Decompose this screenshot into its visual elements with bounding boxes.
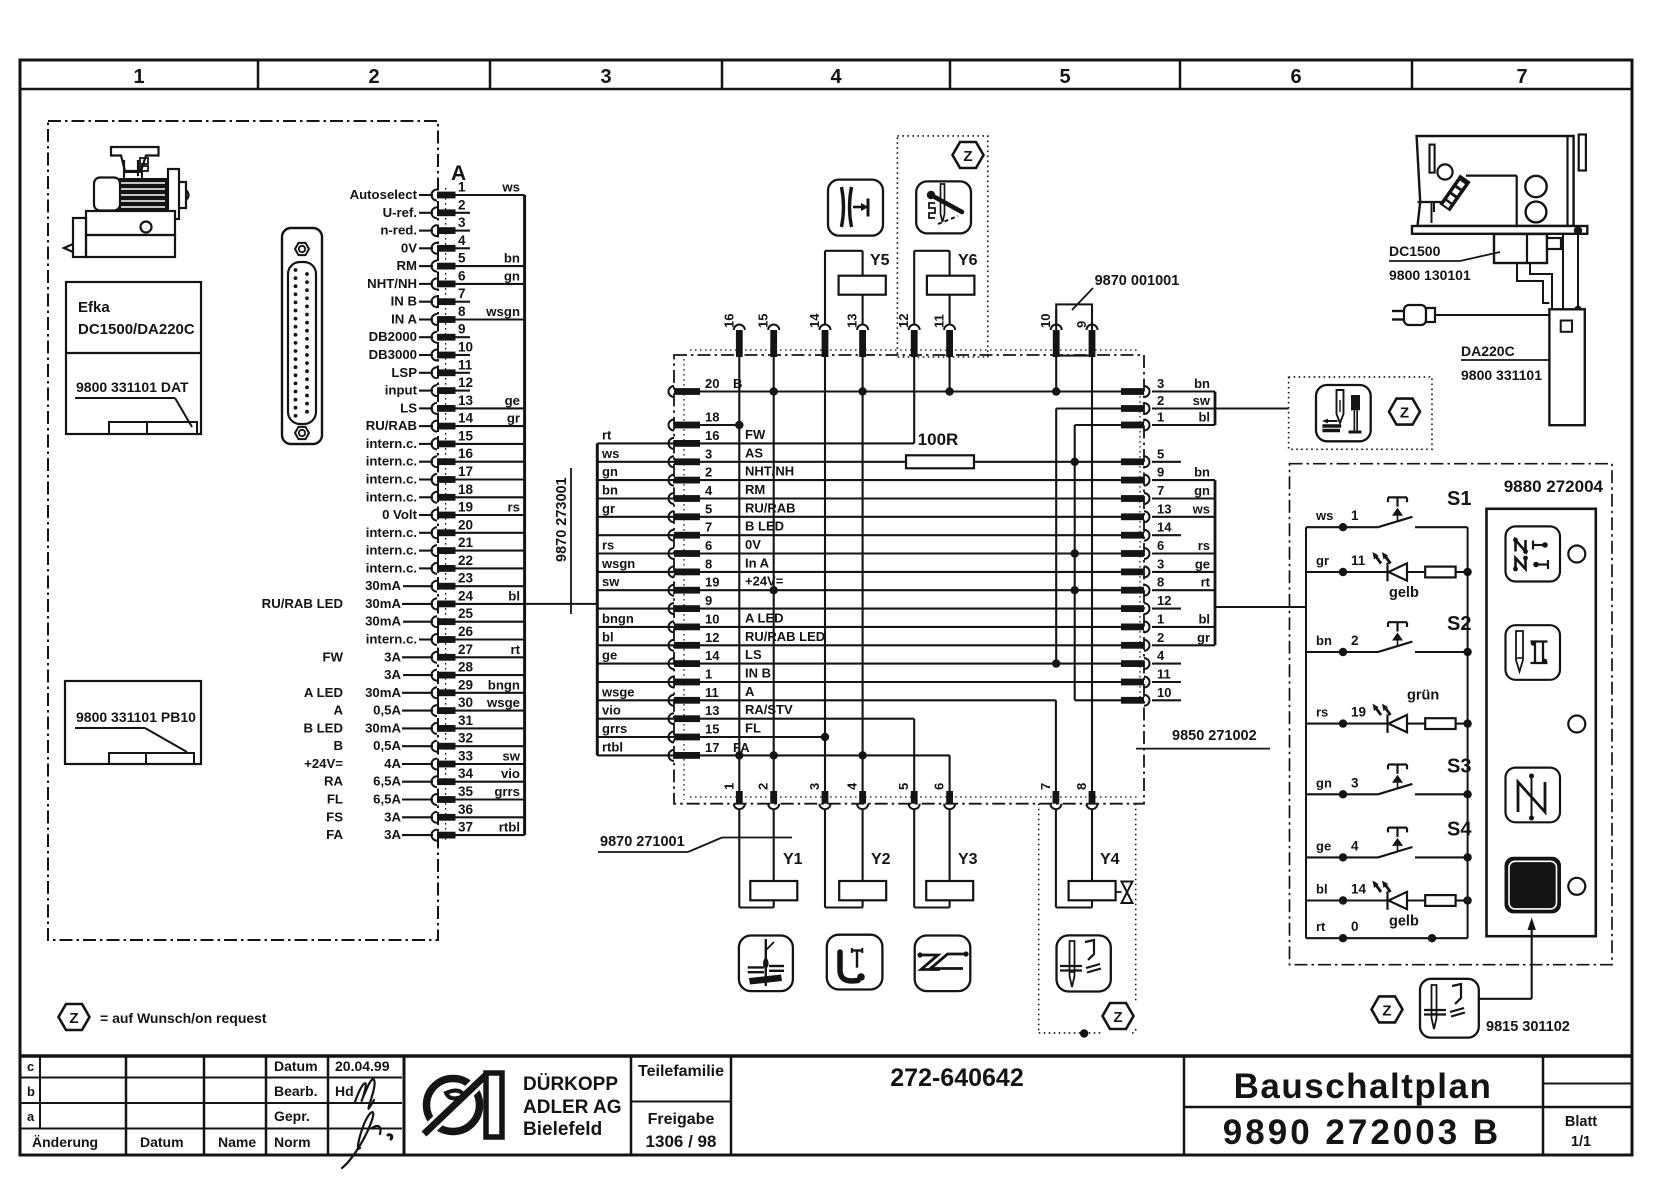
panel round hole 3 bbox=[1568, 878, 1585, 895]
svg-text:LS: LS bbox=[400, 400, 417, 415]
svg-text:gelb: gelb bbox=[1389, 585, 1419, 601]
rail rung row 8 bbox=[597, 571, 674, 573]
svg-text:Y2: Y2 bbox=[871, 851, 891, 868]
svg-text:17: 17 bbox=[458, 464, 473, 479]
block left pin 8 bbox=[669, 566, 675, 577]
svg-text:33: 33 bbox=[458, 749, 474, 764]
svg-text:S3: S3 bbox=[1447, 755, 1471, 777]
svg-text:grün: grün bbox=[1407, 688, 1439, 704]
block left pin 5 bbox=[669, 511, 675, 522]
svg-text:2: 2 bbox=[756, 783, 771, 790]
svg-text:20.04.99: 20.04.99 bbox=[335, 1058, 390, 1074]
column ruler strip bbox=[20, 88, 1632, 91]
connector A pin 20 (intern.c.) bbox=[432, 527, 438, 538]
svg-text:100R: 100R bbox=[918, 430, 959, 449]
svg-text:4: 4 bbox=[1157, 648, 1165, 663]
svg-text:2: 2 bbox=[1157, 393, 1164, 408]
block right pin 14 bbox=[1121, 532, 1144, 539]
block bottom pin 8 bbox=[1089, 791, 1096, 804]
svg-text:18: 18 bbox=[458, 482, 474, 497]
svg-text:wsge: wsge bbox=[486, 695, 520, 710]
svg-text:wsgn: wsgn bbox=[485, 304, 520, 319]
Y3 icon stitch condensing bbox=[915, 936, 971, 992]
svg-text:DC1500/DA220C: DC1500/DA220C bbox=[78, 321, 195, 338]
block left pin 6 bbox=[669, 548, 675, 559]
svg-text:3: 3 bbox=[705, 446, 712, 461]
wire row 16 FW bbox=[700, 442, 914, 444]
svg-text:Hd: Hd bbox=[335, 1083, 354, 1099]
svg-text:Autoselect: Autoselect bbox=[350, 187, 418, 202]
svg-text:gr: gr bbox=[602, 501, 615, 516]
svg-text:6: 6 bbox=[458, 268, 466, 283]
svg-text:Teilefamilie: Teilefamilie bbox=[638, 1063, 724, 1080]
svg-text:rs: rs bbox=[1198, 538, 1210, 553]
block left pin 19 bbox=[669, 585, 675, 596]
connector A pin 1 (Autoselect) bbox=[432, 190, 438, 201]
block left pin 17 bbox=[669, 750, 675, 761]
svg-text:31: 31 bbox=[458, 713, 474, 728]
winder icon needle and tool bbox=[1337, 390, 1344, 423]
svg-text:RM: RM bbox=[396, 258, 417, 273]
connector A pin 14 (RU/RAB) bbox=[432, 421, 438, 432]
svg-text:10: 10 bbox=[705, 611, 719, 626]
block top pin 12 bbox=[911, 330, 918, 357]
connector A dotted pin line bbox=[445, 188, 447, 842]
right label box group 1 bbox=[1214, 392, 1217, 426]
Y4 icon needle thread trim bbox=[1057, 935, 1111, 991]
vertical lane top pin 11 to row 20B bbox=[949, 357, 951, 392]
svg-text:6,5A: 6,5A bbox=[373, 774, 401, 789]
svg-text:rtbl: rtbl bbox=[499, 820, 520, 835]
machine slanted control pad bbox=[1439, 175, 1470, 212]
svg-text:9: 9 bbox=[1157, 465, 1164, 480]
svg-text:9870 001001: 9870 001001 bbox=[1095, 273, 1180, 289]
svg-text:13: 13 bbox=[1157, 501, 1171, 516]
optional dashed box with winder icon bbox=[1289, 377, 1432, 449]
svg-text:9870 271001: 9870 271001 bbox=[600, 834, 685, 850]
wires motor to control box bbox=[1517, 263, 1549, 303]
svg-text:9: 9 bbox=[458, 322, 466, 337]
block bottom pin 1 bbox=[736, 791, 743, 804]
svg-text:RU/RAB LED: RU/RAB LED bbox=[745, 629, 825, 644]
connector 9870 001001 box bbox=[1055, 310, 1057, 325]
svg-text:bn: bn bbox=[504, 251, 520, 266]
svg-text:30mA: 30mA bbox=[365, 685, 401, 700]
svg-text:6: 6 bbox=[1290, 66, 1301, 88]
svg-text:intern.c.: intern.c. bbox=[366, 632, 417, 647]
svg-text:a: a bbox=[27, 1109, 35, 1124]
Y1 icon needle with fabric bbox=[739, 936, 793, 992]
svg-text:29: 29 bbox=[458, 677, 473, 692]
svg-text:1: 1 bbox=[1157, 611, 1164, 626]
svg-text:rtbl: rtbl bbox=[602, 739, 623, 754]
svg-text:10: 10 bbox=[458, 340, 473, 355]
svg-text:30mA: 30mA bbox=[365, 614, 401, 629]
motor positioning bracket bbox=[111, 147, 159, 171]
svg-text:14: 14 bbox=[705, 648, 720, 663]
svg-text:24: 24 bbox=[458, 588, 474, 603]
svg-text:= auf Wunsch/on request: = auf Wunsch/on request bbox=[100, 1010, 267, 1026]
optional dashed box around Y6 bbox=[897, 136, 987, 357]
svg-text:NHT/NH: NHT/NH bbox=[745, 464, 794, 479]
svg-text:sw: sw bbox=[502, 749, 520, 764]
svg-text:12: 12 bbox=[896, 314, 911, 328]
rail rung row 9 bbox=[597, 608, 674, 610]
machine needle bar bbox=[1431, 202, 1433, 223]
svg-text:ge: ge bbox=[602, 648, 617, 663]
svg-text:IN A: IN A bbox=[391, 312, 417, 327]
svg-text:bl: bl bbox=[1198, 410, 1210, 425]
panel left rail bbox=[1305, 527, 1307, 938]
svg-text:12: 12 bbox=[705, 630, 719, 645]
svg-text:15: 15 bbox=[756, 314, 771, 328]
svg-text:28: 28 bbox=[458, 660, 474, 675]
Y4 air valve symbol bbox=[1122, 882, 1133, 904]
svg-text:7: 7 bbox=[1038, 783, 1053, 790]
svg-text:RU/RAB LED: RU/RAB LED bbox=[262, 596, 343, 611]
block left wire rail bbox=[596, 443, 599, 755]
machine handwheel circles bbox=[1525, 176, 1546, 197]
svg-text:rt: rt bbox=[1201, 575, 1211, 590]
central block dash-dot outline (9870 271001 connector field) bbox=[674, 355, 1144, 804]
wire row 1 bbox=[700, 681, 1144, 683]
svg-text:6: 6 bbox=[1157, 538, 1164, 553]
svg-text:Norm: Norm bbox=[274, 1134, 311, 1150]
svg-text:2: 2 bbox=[1157, 630, 1164, 645]
right label box group 2 bbox=[1214, 480, 1217, 645]
svg-text:16: 16 bbox=[705, 428, 719, 443]
panel icon button needle position N bbox=[1506, 768, 1561, 823]
svg-text:26: 26 bbox=[458, 624, 474, 639]
block left pin 15 bbox=[669, 732, 675, 743]
svg-text:bn: bn bbox=[602, 483, 618, 498]
svg-text:12: 12 bbox=[1157, 593, 1171, 608]
block right pin 6 (rs) bbox=[1121, 550, 1144, 557]
rail rung row 6 bbox=[597, 552, 674, 554]
svg-text:ADLER AG: ADLER AG bbox=[523, 1097, 622, 1118]
wire row 3 AS with resistor 100R bbox=[700, 461, 906, 463]
wire right pin 10 corner bbox=[1075, 699, 1144, 701]
wire row 4 bbox=[700, 497, 1144, 499]
connector A pin 16 (intern.c.) bbox=[432, 456, 438, 467]
svg-text:0 Volt: 0 Volt bbox=[382, 507, 418, 522]
connector A pin 33 (+24V=) bbox=[432, 759, 438, 770]
connector A pin 22 (intern.c.) bbox=[432, 563, 438, 574]
svg-text:gn: gn bbox=[1194, 483, 1210, 498]
motor left end cap bbox=[94, 178, 120, 211]
connector A pin 26 (intern.c.) bbox=[432, 634, 438, 645]
svg-text:gn: gn bbox=[602, 464, 618, 479]
svg-text:bn: bn bbox=[1194, 376, 1210, 391]
motor base box bbox=[86, 211, 175, 235]
Z hexagon on Y6 box bbox=[953, 142, 984, 168]
connector A pin 30 (A) bbox=[432, 705, 438, 716]
svg-text:272-640642: 272-640642 bbox=[890, 1064, 1023, 1092]
svg-text:18: 18 bbox=[705, 410, 719, 425]
block top pin 10 bbox=[1053, 330, 1060, 357]
svg-text:rs: rs bbox=[508, 500, 520, 515]
svg-text:rt: rt bbox=[1316, 919, 1326, 934]
svg-text:16: 16 bbox=[458, 446, 474, 461]
svg-text:S1: S1 bbox=[1447, 488, 1471, 510]
svg-text:DB2000: DB2000 bbox=[369, 329, 417, 344]
svg-text:bn: bn bbox=[1194, 465, 1210, 480]
connector A pin 29 (A LED) bbox=[432, 687, 438, 698]
connector A pin 24 (RU/RAB LED) bbox=[432, 598, 438, 609]
wire row 2 bbox=[700, 479, 1144, 481]
wire row 13 RA/STV to bottom pin 5 bbox=[700, 718, 914, 720]
switch S3 bbox=[1306, 793, 1378, 795]
block bottom pin 6 bbox=[946, 791, 953, 804]
block right pin 10 bbox=[1121, 697, 1144, 704]
connector A pin 9 (DB2000) bbox=[432, 332, 438, 343]
rail rung row 11 bbox=[597, 699, 674, 701]
solenoid Y6 wiring bbox=[913, 251, 915, 325]
wires table to control box bbox=[1562, 234, 1564, 310]
svg-text:ws: ws bbox=[1315, 508, 1333, 523]
block top pin 11 bbox=[946, 330, 953, 357]
sewing machine head bbox=[1417, 136, 1574, 226]
svg-text:ws: ws bbox=[501, 180, 520, 195]
svg-text:intern.c.: intern.c. bbox=[366, 472, 417, 487]
svg-text:9800 130101: 9800 130101 bbox=[1389, 267, 1471, 283]
svg-text:1: 1 bbox=[133, 66, 144, 88]
svg-text:n-red.: n-red. bbox=[380, 223, 417, 238]
rail rung row 2 bbox=[597, 479, 674, 481]
svg-text:3: 3 bbox=[1157, 376, 1164, 391]
rail rung row 19 bbox=[597, 589, 674, 591]
svg-text:0V: 0V bbox=[745, 537, 761, 552]
connector A pin 18 (intern.c.) bbox=[432, 492, 438, 503]
svg-text:bl: bl bbox=[602, 629, 614, 644]
svg-text:5: 5 bbox=[458, 251, 466, 266]
svg-text:9815 301102: 9815 301102 bbox=[1486, 1019, 1570, 1035]
svg-text:Datum: Datum bbox=[274, 1058, 318, 1074]
svg-text:ge: ge bbox=[1316, 838, 1331, 853]
block right pin 11 bbox=[1121, 679, 1144, 686]
wire row 12 bbox=[700, 644, 1144, 646]
svg-text:RM: RM bbox=[745, 482, 765, 497]
block left pin 10 bbox=[669, 621, 675, 632]
connector A pin 13 (LS) bbox=[432, 403, 438, 414]
wire row 18 short bbox=[700, 424, 739, 426]
svg-text:FA: FA bbox=[326, 827, 343, 842]
connector A pin 23 bbox=[432, 581, 438, 592]
svg-text:2: 2 bbox=[705, 465, 712, 480]
block right pin 13 (ws) bbox=[1121, 513, 1144, 520]
solenoid Y3 bbox=[913, 810, 915, 908]
panel black button bbox=[1506, 858, 1561, 913]
svg-text:intern.c.: intern.c. bbox=[366, 543, 417, 558]
svg-text:7: 7 bbox=[1157, 483, 1164, 498]
svg-text:FW: FW bbox=[745, 427, 766, 442]
connector A pin 3 (n-red.) bbox=[432, 225, 438, 236]
svg-text:gn: gn bbox=[504, 268, 520, 283]
Y6 icon thread trimmer bbox=[916, 181, 971, 233]
switch S4 bbox=[1306, 856, 1378, 858]
connector A pin 10 (DB3000) bbox=[432, 350, 438, 361]
svg-text:9850 271002: 9850 271002 bbox=[1172, 728, 1257, 744]
block bottom pin 3 bbox=[822, 791, 829, 804]
connector A pin 36 (FS) bbox=[432, 812, 438, 823]
block top pin 16 bbox=[736, 330, 743, 357]
svg-text:AS: AS bbox=[745, 445, 763, 460]
svg-text:intern.c.: intern.c. bbox=[366, 436, 417, 451]
connector A pin 19 (0 Volt) bbox=[432, 510, 438, 521]
svg-text:2: 2 bbox=[1351, 633, 1359, 648]
connector A pin 31 (B LED) bbox=[432, 723, 438, 734]
svg-text:rt: rt bbox=[602, 427, 612, 442]
svg-text:Datum: Datum bbox=[140, 1134, 184, 1150]
motor DC1500 under table bbox=[1494, 234, 1547, 263]
svg-text:Y1: Y1 bbox=[783, 851, 803, 868]
LED gelb (gr 11) bbox=[1306, 571, 1388, 573]
svg-text:4: 4 bbox=[705, 483, 713, 498]
svg-text:intern.c.: intern.c. bbox=[366, 454, 417, 469]
label 9800 331101 PB10 box bbox=[65, 681, 201, 764]
svg-text:Freigabe: Freigabe bbox=[648, 1111, 715, 1128]
svg-text:B: B bbox=[333, 738, 343, 753]
block left pin 12 bbox=[669, 640, 675, 651]
svg-text:25: 25 bbox=[458, 606, 474, 621]
Efka DC1500/DA220C box bbox=[66, 282, 201, 434]
svg-text:17: 17 bbox=[705, 740, 719, 755]
svg-text:gr: gr bbox=[507, 411, 520, 426]
connector A pin 7 (IN B) bbox=[432, 296, 438, 307]
icon box 9815 301102 bbox=[1420, 979, 1479, 1038]
block left pin 16 bbox=[669, 438, 675, 449]
svg-text:5: 5 bbox=[1157, 446, 1164, 461]
solenoid Y1 bbox=[738, 810, 740, 908]
rail rung row 10 bbox=[597, 626, 674, 628]
svg-text:A: A bbox=[745, 684, 755, 699]
svg-text:16: 16 bbox=[721, 314, 736, 328]
svg-text:Z: Z bbox=[963, 148, 972, 165]
svg-text:Y4: Y4 bbox=[1100, 851, 1120, 868]
svg-text:rs: rs bbox=[1316, 705, 1328, 720]
svg-text:ws: ws bbox=[1192, 501, 1210, 516]
wire row 6 0V bbox=[700, 552, 1144, 554]
connector A pin 8 (IN A) bbox=[432, 314, 438, 325]
svg-text:Änderung: Änderung bbox=[32, 1134, 98, 1150]
svg-text:gr: gr bbox=[1316, 553, 1329, 568]
svg-text:A: A bbox=[333, 703, 343, 718]
control box DA220C bbox=[1549, 309, 1584, 425]
rail rung row 7 bbox=[597, 534, 674, 536]
svg-text:bngn: bngn bbox=[488, 677, 520, 692]
svg-text:gelb: gelb bbox=[1389, 914, 1419, 930]
svg-text:vio: vio bbox=[602, 703, 621, 718]
svg-text:RU/RAB: RU/RAB bbox=[366, 418, 417, 433]
svg-text:Efka: Efka bbox=[78, 299, 110, 316]
svg-text:intern.c.: intern.c. bbox=[366, 489, 417, 504]
svg-text:Gepr.: Gepr. bbox=[274, 1108, 310, 1124]
Duerkopp Adler logo bbox=[427, 1079, 480, 1132]
LED gelb (bl 14) bbox=[1306, 899, 1388, 901]
block left pin 4 bbox=[669, 493, 675, 504]
37-pin D-sub connector drawing bbox=[282, 228, 322, 444]
connector A pin 37 (FA) bbox=[432, 830, 438, 841]
block left pin 18 bbox=[669, 420, 675, 431]
svg-text:LS: LS bbox=[745, 647, 762, 662]
svg-text:1306 / 98: 1306 / 98 bbox=[646, 1132, 717, 1151]
block right pin 4 bbox=[1121, 660, 1144, 667]
connector A pin 27 (FW) bbox=[432, 652, 438, 663]
connector A pin 5 (RM) bbox=[432, 261, 438, 272]
block left pin 9 bbox=[669, 603, 675, 614]
svg-text:30mA: 30mA bbox=[365, 578, 401, 593]
rail rung row 15 bbox=[597, 736, 674, 738]
svg-text:9880 272004: 9880 272004 bbox=[1504, 477, 1604, 496]
svg-text:36: 36 bbox=[458, 802, 474, 817]
svg-text:RU/RAB: RU/RAB bbox=[745, 500, 796, 515]
svg-text:1: 1 bbox=[1351, 508, 1359, 523]
svg-text:Z: Z bbox=[1113, 1009, 1122, 1026]
svg-text:FW: FW bbox=[322, 649, 343, 664]
svg-text:30mA: 30mA bbox=[365, 720, 401, 735]
svg-text:14: 14 bbox=[1351, 882, 1367, 897]
svg-text:11: 11 bbox=[705, 685, 719, 700]
svg-text:4: 4 bbox=[1351, 838, 1359, 853]
connector A pin 25 bbox=[432, 616, 438, 627]
cable 9870 273001 bus line bbox=[523, 195, 526, 835]
svg-text:7: 7 bbox=[458, 286, 466, 301]
svg-text:23: 23 bbox=[458, 571, 474, 586]
svg-text:27: 27 bbox=[458, 642, 473, 657]
block bottom pin 4 bbox=[859, 791, 866, 804]
svg-text:11: 11 bbox=[1157, 667, 1171, 682]
svg-text:3: 3 bbox=[1157, 556, 1164, 571]
block top pin 15 bbox=[770, 330, 777, 357]
svg-text:Blatt: Blatt bbox=[1565, 1114, 1597, 1130]
resistor 100R bbox=[906, 455, 974, 468]
panel bottom row rt 0 bbox=[1306, 937, 1468, 939]
svg-text:DC1500: DC1500 bbox=[1389, 243, 1441, 259]
optional dashed enclosure around Y4 bbox=[1038, 804, 1040, 1033]
block bottom pin 5 bbox=[911, 791, 918, 804]
vertical lane top pin 14 to bottom pin 3 bbox=[824, 357, 826, 791]
svg-text:1: 1 bbox=[1157, 410, 1164, 425]
Y2 icon hook bbox=[827, 935, 883, 990]
svg-text:wsge: wsge bbox=[601, 684, 635, 699]
svg-text:FL: FL bbox=[745, 721, 761, 736]
wire row 10 bbox=[700, 626, 1144, 628]
vertical lane top pin 13 to bottom pin 4 bbox=[862, 357, 864, 791]
svg-text:8: 8 bbox=[1074, 783, 1089, 790]
block top pin 13 bbox=[859, 330, 866, 357]
svg-text:FL: FL bbox=[327, 792, 343, 807]
svg-text:8: 8 bbox=[705, 556, 712, 571]
machine arm cutout bbox=[1466, 175, 1517, 177]
svg-text:DB3000: DB3000 bbox=[369, 347, 417, 362]
solenoid Y2 bbox=[824, 810, 826, 908]
wire to optional sensor box bbox=[1215, 407, 1289, 409]
block right pin 3 (bn) bbox=[1121, 388, 1144, 395]
svg-text:S2: S2 bbox=[1447, 613, 1471, 635]
svg-text:grrs: grrs bbox=[602, 721, 627, 736]
panel right rail bbox=[1467, 527, 1469, 938]
wire row 8 bbox=[700, 571, 1144, 573]
svg-text:9800 331101 PB10: 9800 331101 PB10 bbox=[76, 709, 196, 725]
svg-text:15: 15 bbox=[458, 428, 474, 443]
svg-text:DÜRKOPP: DÜRKOPP bbox=[523, 1074, 618, 1095]
svg-text:IN B: IN B bbox=[391, 294, 417, 309]
panel round hole 1 bbox=[1568, 546, 1585, 563]
block left pin 20 bbox=[669, 386, 675, 397]
svg-text:In A: In A bbox=[745, 555, 770, 570]
connector A pin 35 (FL) bbox=[432, 794, 438, 805]
block left pin 1 bbox=[669, 677, 675, 688]
